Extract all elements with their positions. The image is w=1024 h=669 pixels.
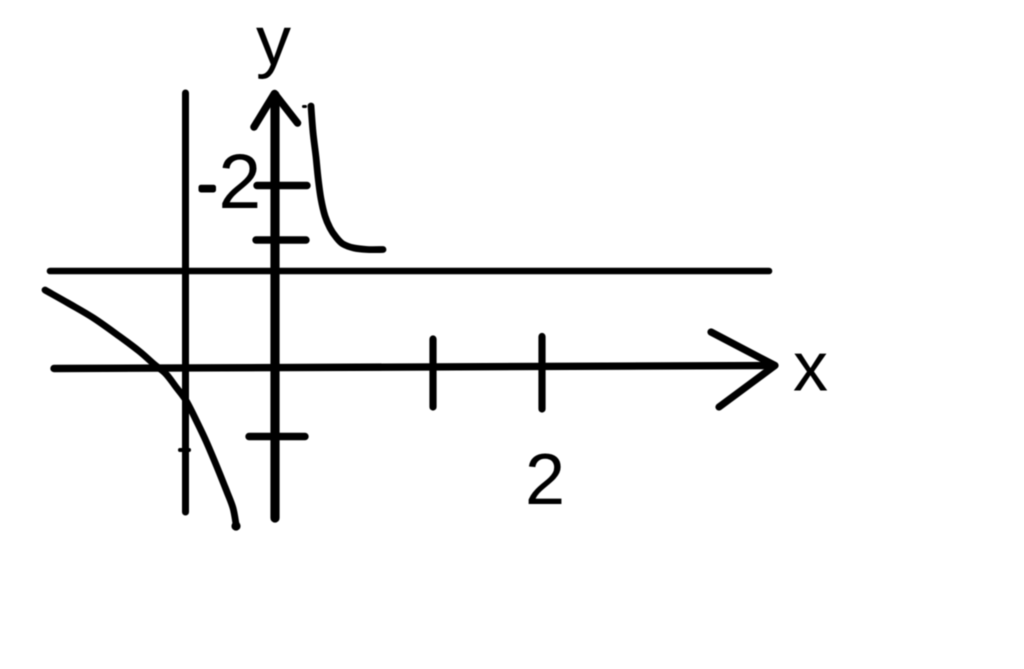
svg-text:y: y [256, 1, 291, 79]
svg-text:x: x [793, 328, 828, 406]
svg-text:2: 2 [525, 440, 565, 520]
svg-text:2: 2 [218, 139, 261, 225]
